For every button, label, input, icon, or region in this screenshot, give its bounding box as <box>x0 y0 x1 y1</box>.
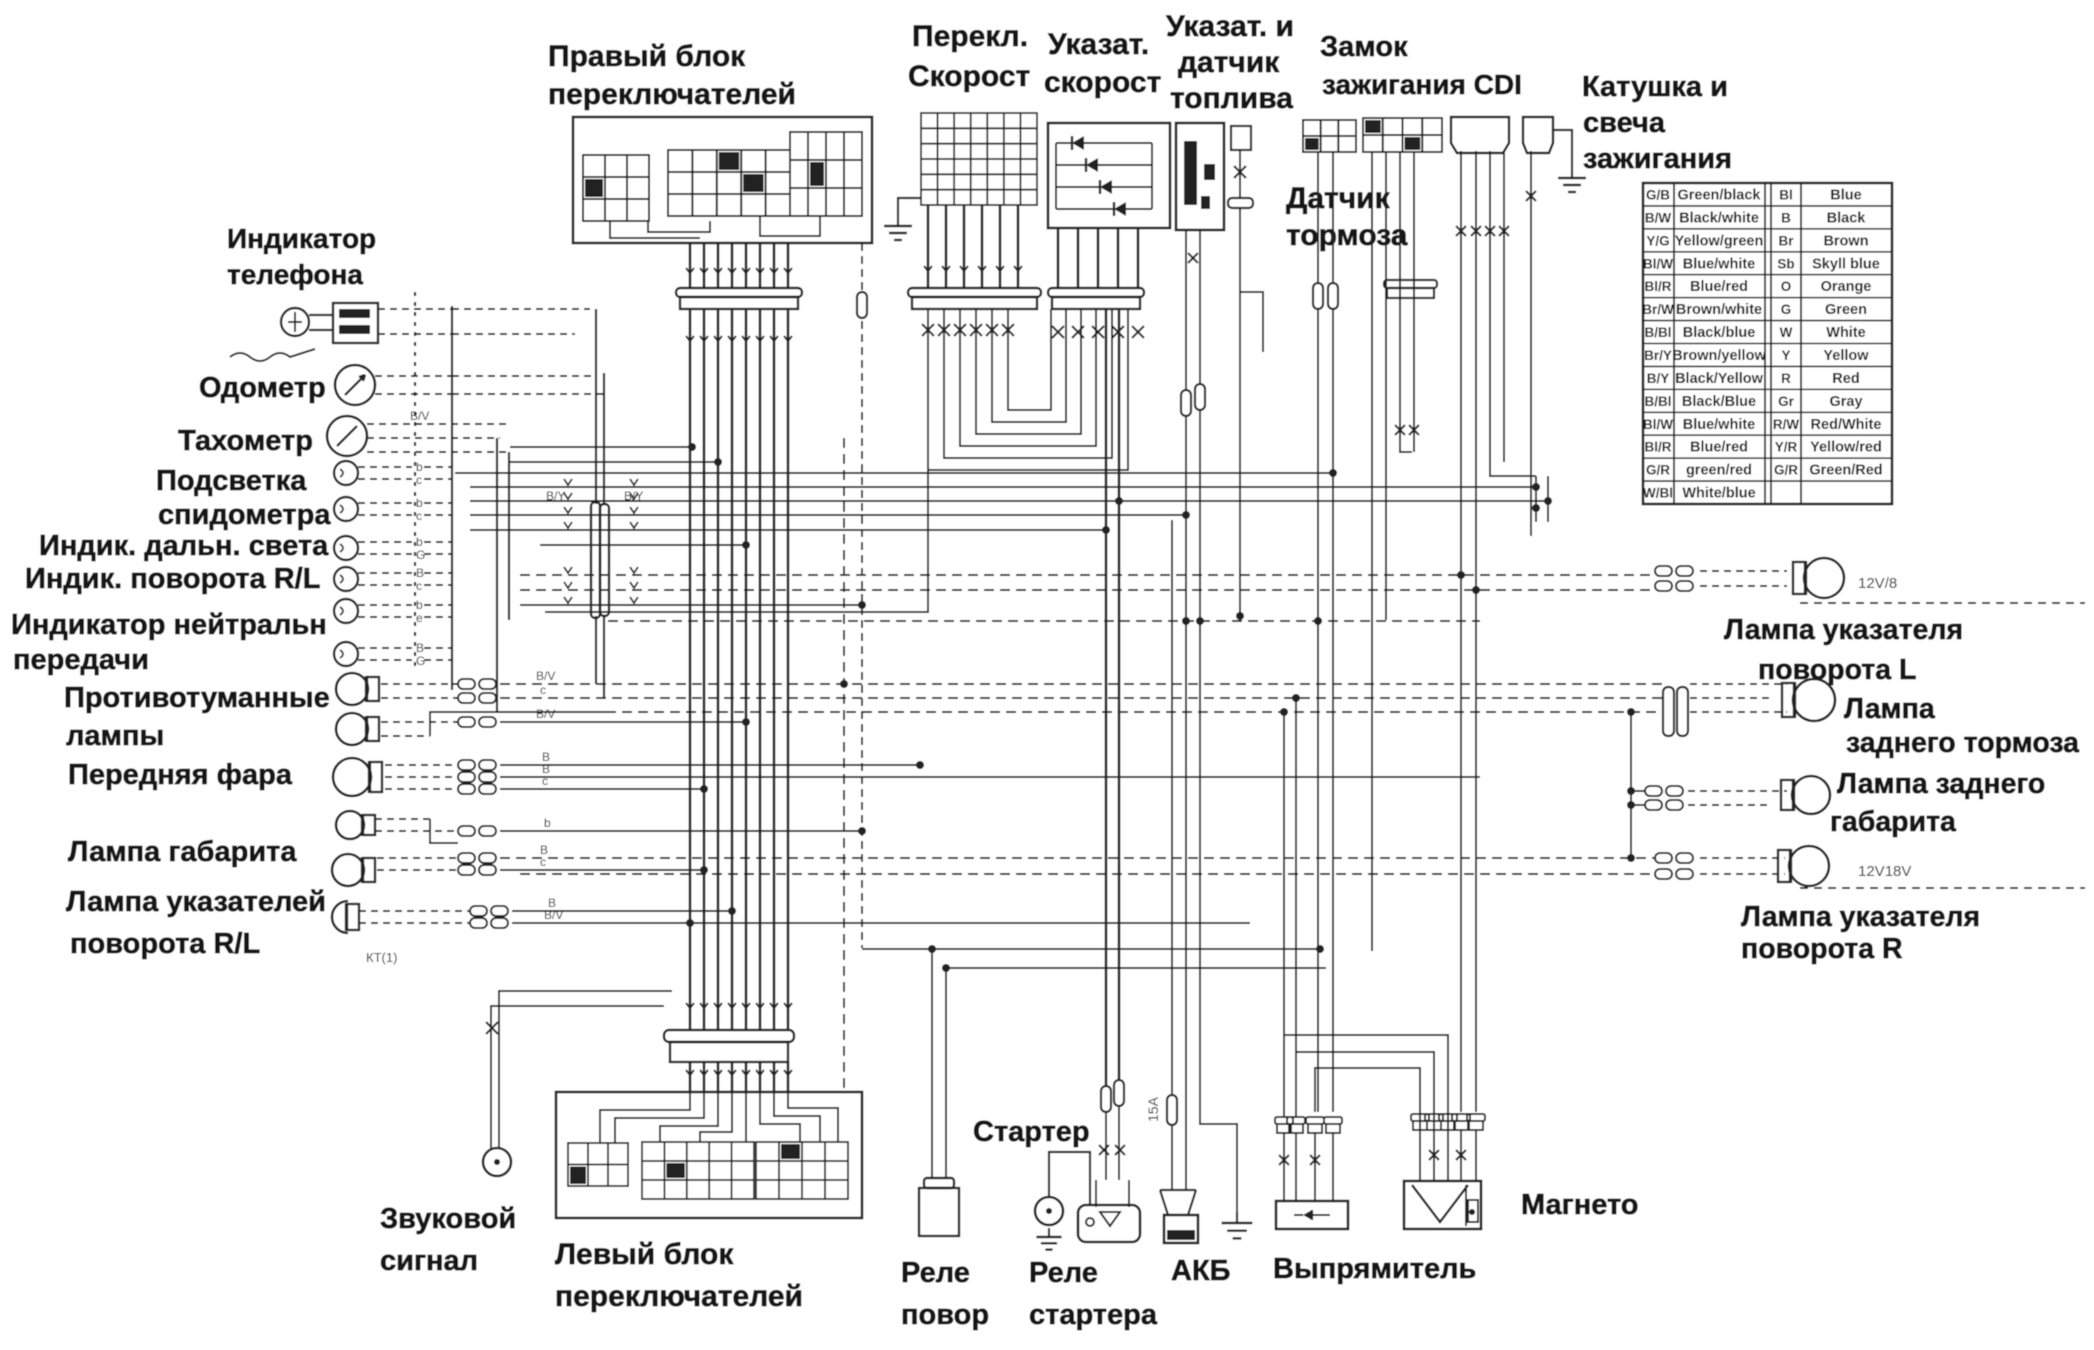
svg-text:c: c <box>540 683 546 697</box>
svg-text:Red: Red <box>1832 371 1859 387</box>
svg-text:c: c <box>542 774 548 788</box>
svg-text:Тахометр: Тахометр <box>178 425 313 457</box>
headlamp <box>333 758 371 796</box>
position lamp <box>336 811 364 839</box>
svg-text:c: c <box>416 473 422 487</box>
left block connector bar <box>664 1030 794 1042</box>
svg-text:B: B <box>1781 210 1791 225</box>
turn lamp R leads <box>1700 857 1785 859</box>
fog lamp2 lead top <box>381 721 458 723</box>
svg-text:скорост: скорост <box>1044 66 1161 99</box>
svg-text:R: R <box>1781 371 1791 386</box>
svg-text:Bl/R: Bl/R <box>1645 440 1672 455</box>
left vertical wire 3 <box>508 452 510 620</box>
relay wires down <box>931 949 933 1178</box>
svg-text:B/V: B/V <box>410 409 429 423</box>
left block grid L <box>568 1143 628 1186</box>
rear position lamp leads <box>1688 790 1787 792</box>
svg-text:Индикатор нейтральн: Индикатор нейтральн <box>11 609 327 641</box>
svg-text:Противотуманные: Противотуманные <box>64 682 330 714</box>
svg-text:Лампа указателя: Лампа указателя <box>1741 901 1980 933</box>
svg-text:Bl/R: Bl/R <box>1645 279 1672 294</box>
magneto box <box>1404 1181 1481 1229</box>
rear position lamp <box>1792 776 1830 814</box>
svg-text:Звуковой: Звуковой <box>380 1203 516 1235</box>
headlamp leads <box>385 764 458 766</box>
svg-text:Red/White: Red/White <box>1811 417 1882 433</box>
battery funnel <box>1160 1189 1196 1191</box>
left block grid M <box>642 1142 754 1199</box>
bus line y621 <box>608 620 1480 622</box>
turn lamp L right bullets <box>1655 566 1672 576</box>
speed indicator X marks <box>1052 326 1064 338</box>
svg-text:Реле: Реле <box>1029 1257 1098 1289</box>
right switch block connector grid 1 <box>583 155 649 221</box>
svg-text:Датчик: Датчик <box>1286 182 1391 215</box>
svg-text:b: b <box>416 460 423 474</box>
fuel sensor connector <box>1231 126 1251 150</box>
svg-text:Gray: Gray <box>1829 394 1862 410</box>
svg-text:B/Bl: B/Bl <box>1645 394 1672 409</box>
right switch block connector grid 3 <box>790 132 862 216</box>
svg-text:Одометр: Одометр <box>199 372 326 404</box>
odometer leads <box>375 375 452 377</box>
svg-text:c: c <box>416 509 422 523</box>
turn relay <box>924 1178 954 1188</box>
starter motor <box>1035 1197 1063 1225</box>
svg-text:переключателей: переключателей <box>555 1280 803 1313</box>
svg-text:Y/R: Y/R <box>1775 440 1798 455</box>
svg-text:сигнал: сигнал <box>380 1245 478 1277</box>
ground symbol speed switch <box>897 216 899 226</box>
CDI connector box <box>1451 117 1509 153</box>
svg-text:W/Bl: W/Bl <box>1643 486 1673 501</box>
CDI X marks <box>1456 226 1466 236</box>
svg-text:зажигания CDI: зажигания CDI <box>1322 69 1522 100</box>
tachometer leads <box>367 423 510 425</box>
svg-text:G/B: G/B <box>1646 188 1670 203</box>
svg-text:Лампа: Лампа <box>1844 693 1936 725</box>
svg-text:Стартер: Стартер <box>973 1116 1090 1148</box>
bundle wires bar to box <box>689 1062 692 1092</box>
rectifier box <box>1276 1201 1348 1229</box>
indicator leads extension <box>424 466 452 468</box>
bus line y487 <box>470 486 1536 488</box>
fog lamp 2 <box>336 713 368 745</box>
long dash vertical x844 <box>843 438 845 1092</box>
left switch block box <box>556 1092 862 1218</box>
bus line y575 <box>520 574 1655 576</box>
svg-text:Yellow/red: Yellow/red <box>1810 440 1882 456</box>
svg-text:Магнето: Магнето <box>1521 1189 1639 1221</box>
rectifier wires to box <box>1283 1133 1285 1201</box>
svg-text:Green/Red: Green/Red <box>1809 463 1882 479</box>
svg-text:G: G <box>416 548 425 562</box>
svg-text:Указат.: Указат. <box>1048 28 1149 61</box>
short bus y447 <box>510 446 692 448</box>
turn lamp L1 leads <box>377 857 458 859</box>
svg-text:датчик: датчик <box>1178 46 1280 79</box>
svg-text:12V18V: 12V18V <box>1858 863 1911 880</box>
svg-text:Лампа указателей: Лампа указателей <box>66 886 326 918</box>
svg-text:Перекл.: Перекл. <box>912 20 1028 53</box>
svg-text:W: W <box>1780 325 1793 340</box>
long vertical x862 <box>861 243 863 948</box>
svg-text:B/Y: B/Y <box>1647 371 1670 386</box>
left block grid R <box>756 1142 848 1199</box>
fuel gauge wires down <box>1185 230 1187 620</box>
indicator lamps column <box>334 461 358 485</box>
battery wires <box>1185 620 1187 1190</box>
svg-text:Bl: Bl <box>1779 188 1793 203</box>
phone indicator squiggle <box>230 349 315 361</box>
magneto collars <box>1411 1114 1429 1121</box>
svg-text:Катушка и: Катушка и <box>1582 71 1728 103</box>
svg-text:Blue/red: Blue/red <box>1690 440 1748 456</box>
CDI wire 4 <box>1503 151 1505 462</box>
svg-text:Br: Br <box>1778 233 1794 248</box>
wire bundle from right switch block <box>689 243 692 288</box>
svg-text:Black/Yellow: Black/Yellow <box>1675 371 1764 387</box>
svg-text:B/V: B/V <box>536 669 555 683</box>
bus line y590 <box>520 589 1655 591</box>
right switch block box <box>573 117 872 243</box>
turn signal lamp L <box>1804 558 1844 598</box>
svg-text:c: c <box>540 855 546 869</box>
svg-text:B/Bl: B/Bl <box>1645 325 1672 340</box>
turn lamp L2 leads <box>359 910 470 912</box>
bundle arrows y1075 <box>686 1070 694 1075</box>
ignition lock wires B down <box>1371 152 1373 951</box>
speed switch X marks <box>922 324 934 336</box>
CDI wire 2 down to magneto <box>1475 151 1477 1112</box>
right switch block connector grid 2 <box>668 150 790 216</box>
speed switch arrows <box>924 266 932 271</box>
svg-text:переключателей: переключателей <box>548 78 796 111</box>
dashed vertical bus <box>414 292 416 668</box>
left vertical wire 1 <box>451 306 453 690</box>
svg-text:топлива: топлива <box>1170 82 1293 115</box>
bundle wires above bar <box>689 1000 692 1030</box>
svg-text:G/R: G/R <box>1646 463 1670 478</box>
bus line y605 <box>520 604 862 606</box>
svg-text:Gr: Gr <box>1778 394 1795 409</box>
horizontal y968 <box>946 967 1326 969</box>
svg-text:Black/Blue: Black/Blue <box>1682 394 1756 410</box>
horn <box>483 1148 511 1176</box>
svg-text:Y/G: Y/G <box>1646 233 1669 248</box>
bus corner wire y612 <box>545 470 928 612</box>
right switch block internal wires <box>610 221 700 238</box>
svg-text:повор: повор <box>901 1299 989 1331</box>
svg-text:Skyll blue: Skyll blue <box>1812 256 1880 272</box>
svg-text:Индик. поворота R/L: Индик. поворота R/L <box>25 563 320 595</box>
ground symbol coil <box>1571 168 1573 178</box>
svg-text:Bl/W: Bl/W <box>1643 417 1673 432</box>
svg-text:поворота R/L: поворота R/L <box>70 928 260 960</box>
odometer gauge <box>335 365 375 405</box>
svg-text:B/V: B/V <box>536 707 555 721</box>
ignition coil box <box>1523 117 1553 153</box>
svg-text:B/V: B/V <box>544 908 563 922</box>
svg-text:телефона: телефона <box>227 259 363 290</box>
rectifier wires <box>1283 712 1285 1117</box>
svg-text:Указат. и: Указат. и <box>1166 10 1294 43</box>
wire bundle center vertical run <box>689 309 692 1000</box>
svg-text:Blue/white: Blue/white <box>1683 417 1756 433</box>
svg-text:Выпрямитель: Выпрямитель <box>1273 1253 1476 1285</box>
svg-text:Левый блок: Левый блок <box>555 1238 734 1271</box>
bundle arrow marks lower <box>686 336 694 341</box>
turn signal lamp R <box>1789 846 1829 886</box>
coil wire down <box>1530 151 1532 536</box>
svg-text:Black/white: Black/white <box>1679 210 1759 226</box>
svg-text:Brown/yellow: Brown/yellow <box>1672 348 1766 364</box>
left vertical wire 2 <box>496 438 498 712</box>
bus line y473 <box>455 472 1333 474</box>
left vertical wire phone <box>595 309 597 504</box>
instrument capsule connector <box>591 502 600 618</box>
svg-text:Замок: Замок <box>1320 31 1408 63</box>
svg-text:стартера: стартера <box>1029 1299 1158 1331</box>
magneto wires into box <box>1419 1130 1421 1181</box>
svg-text:Реле: Реле <box>901 1257 970 1289</box>
svg-text:КТ(1): КТ(1) <box>366 950 397 965</box>
coil wire to ground <box>1553 130 1572 168</box>
svg-text:b: b <box>544 816 551 830</box>
svg-text:спидометра: спидометра <box>158 499 331 531</box>
fuse 15A <box>1167 1095 1177 1125</box>
bus line y515 <box>470 514 1186 516</box>
verticals below capsule <box>595 616 597 684</box>
svg-text:B/W: B/W <box>1645 210 1672 225</box>
svg-text:Индик. дальн. света: Индик. дальн. света <box>39 530 329 562</box>
phone indicator leads <box>378 308 452 310</box>
svg-text:White: White <box>1826 325 1865 341</box>
svg-text:поворота R: поворота R <box>1741 933 1903 965</box>
magneto n-loop wires <box>1284 1035 1448 1181</box>
CDI wire 3 <box>1490 151 1536 476</box>
svg-text:Sb: Sb <box>1777 256 1794 271</box>
speed switch wires down <box>927 205 930 288</box>
rear brake lamp <box>1793 679 1835 721</box>
fog lamp1 lead bottom <box>381 697 458 699</box>
svg-text:Скорост: Скорост <box>908 60 1030 93</box>
svg-text:Yellow: Yellow <box>1823 348 1869 364</box>
dash under lamp L <box>1800 602 2085 604</box>
color code table grid <box>1643 183 1892 504</box>
svg-text:e: e <box>416 611 423 625</box>
fuel sensor wire <box>1239 150 1241 198</box>
svg-text:Brown: Brown <box>1823 233 1868 249</box>
starter relay fuses <box>1101 1086 1111 1112</box>
svg-text:лампы: лампы <box>66 720 164 752</box>
svg-text:свеча: свеча <box>1583 107 1666 139</box>
turn lamp L right leads <box>1700 570 1787 572</box>
brake lamp connector bar <box>1663 687 1674 736</box>
fog lamp2 lead bottom <box>381 735 430 737</box>
starter ground <box>1048 1228 1050 1237</box>
svg-text:c: c <box>416 579 422 593</box>
left block internal wires <box>600 1092 690 1143</box>
svg-text:Blue: Blue <box>1830 188 1861 204</box>
bus arrows at capsule <box>564 479 572 485</box>
tachometer gauge <box>327 416 367 456</box>
brake lamp leads <box>1690 683 1787 685</box>
speed indicator long wires down <box>1105 309 1108 1086</box>
svg-text:заднего тормоза: заднего тормоза <box>1846 727 2080 759</box>
svg-text:b: b <box>416 598 423 612</box>
svg-text:O: O <box>1781 279 1792 294</box>
speed switch ground wire <box>898 198 921 216</box>
svg-text:поворота L: поворота L <box>1758 654 1916 686</box>
dash under lamp R <box>1800 887 2085 889</box>
svg-text:B: B <box>416 641 424 655</box>
svg-text:12V/8: 12V/8 <box>1858 575 1897 592</box>
rear position lamp bullets <box>1631 790 1645 792</box>
fog lamp 1 <box>336 673 368 705</box>
speed indicator wires to bar <box>1057 228 1060 288</box>
svg-text:тормоза: тормоза <box>1286 219 1408 252</box>
nested wire loops speed switch to indicator <box>928 309 1128 470</box>
svg-text:G/R: G/R <box>1774 463 1798 478</box>
ignition lock wires A down <box>1317 152 1319 283</box>
svg-text:B: B <box>416 566 424 580</box>
fuel gauge black bars <box>1184 141 1197 205</box>
svg-text:Передняя фара: Передняя фара <box>68 759 293 791</box>
svg-text:Индикатор: Индикатор <box>227 223 376 254</box>
short bus y462 <box>510 461 718 463</box>
speed indicator connector bar <box>1048 288 1144 297</box>
svg-text:Yellow/green: Yellow/green <box>1675 233 1764 249</box>
svg-text:Brown/white: Brown/white <box>1676 302 1762 318</box>
bundle arrows y1005 <box>686 1003 694 1008</box>
bundle arrow marks upper <box>686 268 694 273</box>
svg-text:green/red: green/red <box>1686 463 1752 479</box>
svg-text:Blue/red: Blue/red <box>1690 279 1748 295</box>
ignition lock connector grid B <box>1363 118 1442 152</box>
svg-text:габарита: габарита <box>1830 806 1957 838</box>
position lamp leads <box>375 818 430 820</box>
bundle connector bar <box>676 288 802 297</box>
speed indicator box <box>1048 123 1170 228</box>
speed switch connector bar <box>908 288 1041 297</box>
starter relay funnel <box>1095 1180 1097 1207</box>
svg-text:Лампа габарита: Лампа габарита <box>68 836 297 868</box>
svg-text:White/blue: White/blue <box>1682 486 1755 502</box>
svg-text:передачи: передачи <box>13 644 149 676</box>
svg-text:b: b <box>416 535 423 549</box>
fog lamp1 lead top <box>381 683 458 685</box>
turn lamp R bullets <box>1655 853 1672 863</box>
svg-text:15A: 15A <box>1145 1096 1161 1122</box>
starter relay box <box>1078 1205 1140 1242</box>
position vertical link <box>1630 712 1632 858</box>
left vertical wire odometer <box>603 373 605 504</box>
svg-text:Green: Green <box>1825 302 1867 318</box>
svg-text:АКБ: АКБ <box>1171 1255 1231 1287</box>
svg-text:Green/black: Green/black <box>1677 188 1761 204</box>
bus line y545 <box>540 544 746 546</box>
phone indicator connector <box>333 303 378 343</box>
ignition lock connector grid A <box>1303 120 1356 152</box>
svg-text:Black/blue: Black/blue <box>1683 325 1756 341</box>
svg-text:Y: Y <box>1781 348 1790 363</box>
rectifier collars <box>1275 1117 1293 1124</box>
turn lamp R bus <box>520 873 1655 875</box>
horizontal y949 <box>862 948 1320 950</box>
bus line y530 <box>470 529 1106 531</box>
battery box <box>1164 1215 1198 1243</box>
ground symbol battery <box>1236 1212 1238 1223</box>
svg-text:G: G <box>1781 302 1792 317</box>
phone indicator lamp <box>281 308 309 336</box>
horn wires <box>491 1006 664 1149</box>
svg-text:R/W: R/W <box>1773 417 1800 432</box>
svg-text:Black: Black <box>1827 210 1867 226</box>
bus line y501 <box>470 500 1548 502</box>
svg-text:Лампа заднего: Лампа заднего <box>1837 768 2045 800</box>
svg-text:Лампа указателя: Лампа указателя <box>1724 614 1963 646</box>
speed switch connector grid <box>921 113 1037 205</box>
CDI wire 1 down to magneto <box>1460 151 1462 1112</box>
svg-text:Br/Y: Br/Y <box>1644 348 1672 363</box>
svg-text:Blue/white: Blue/white <box>1683 256 1756 272</box>
svg-text:Правый блок: Правый блок <box>548 40 746 73</box>
speed indicator diodes <box>1056 142 1152 144</box>
svg-text:G: G <box>416 654 425 668</box>
svg-text:Подсветка: Подсветка <box>156 465 307 497</box>
svg-text:зажигания: зажигания <box>1583 143 1732 175</box>
turn lamp L1 <box>332 854 364 886</box>
svg-text:Br/W: Br/W <box>1642 302 1674 317</box>
fuel gauge box <box>1176 123 1224 230</box>
CDI junction wires <box>1535 476 1537 522</box>
svg-text:Bl/W: Bl/W <box>1643 256 1673 271</box>
svg-text:b: b <box>416 496 423 510</box>
svg-text:Orange: Orange <box>1821 279 1872 295</box>
turn lamp L2 <box>332 901 348 933</box>
ignition lock connector bar B <box>1384 280 1437 288</box>
